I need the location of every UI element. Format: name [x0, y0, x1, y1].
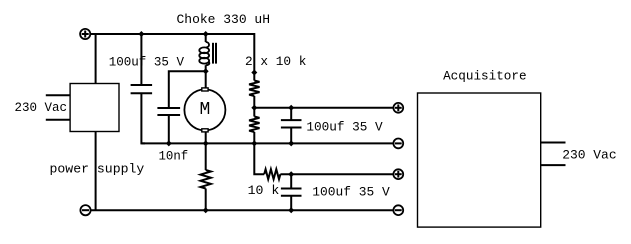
wire 230 Vac input upper — [46, 94, 70, 96]
svg-text:power supply: power supply — [50, 161, 145, 176]
wire acquisitore mains lower — [541, 164, 566, 166]
resistor R1 lead bottom — [253, 96, 255, 117]
svg-text:Acquisitore: Acquisitore — [443, 69, 526, 84]
capacitor C3 100uf 35V lead top — [290, 174, 292, 188]
svg-text:100uf 35 V: 100uf 35 V — [109, 55, 184, 70]
resistor R3 below motor lead top — [205, 143, 207, 170]
capacitor C4 10nf lead bottom — [168, 115, 170, 143]
svg-text:100uf 35 V: 100uf 35 V — [306, 119, 382, 134]
resistor R2 lead bottom — [253, 132, 255, 143]
capacitor C1 100uf 35V plates — [131, 85, 153, 93]
terminal plus output 2 — [393, 169, 403, 179]
terminal minus output 1 — [393, 139, 403, 149]
wire from top rail down to power supply box top — [95, 34, 97, 84]
resistor R2 (lower 10k) zigzag — [249, 117, 259, 133]
capacitor C2 100uf 35V lead top — [290, 108, 292, 120]
motor M bottom brush terminal — [202, 129, 208, 132]
terminal minus (power supply negative output) — [80, 205, 90, 215]
wire row C from R4 to plus terminal 2 — [280, 173, 393, 175]
resistor R3 lead bottom — [205, 189, 207, 211]
choke L1 core bars — [213, 43, 216, 64]
capacitor C1 100uf 35V lead top — [140, 34, 142, 85]
resistor R3 zigzag — [201, 170, 211, 189]
wire row A from divider to plus terminal 1 — [254, 107, 393, 109]
svg-text:230 Vac: 230 Vac — [15, 100, 68, 115]
motor M wire from choke node to motor top brush — [205, 71, 207, 88]
terminal minus output 2 — [393, 205, 403, 215]
motor M top brush terminal — [202, 88, 208, 91]
svg-text:100uf 35 V: 100uf 35 V — [312, 184, 390, 199]
wire from choke bottom node left to 10nf capacitor — [169, 71, 206, 108]
terminal plus (power supply positive output) — [80, 29, 90, 39]
wire from power supply box bottom down to bottom rail — [95, 132, 97, 211]
svg-text:2 x 10 k: 2 x 10 k — [245, 54, 307, 69]
svg-text:10 k: 10 k — [248, 183, 280, 198]
wire acquisitore mains upper — [541, 142, 566, 144]
node junction C2 bottom / row B — [288, 140, 294, 146]
node junction on right column above R1 — [251, 70, 257, 76]
capacitor C1 lead bottom (corner into row B) — [141, 93, 145, 143]
node junction C3 top / row C — [288, 171, 294, 177]
node junction C2 top / row A — [288, 105, 294, 111]
capacitor C3 plates — [281, 189, 302, 196]
node junction top rail / choke top — [203, 31, 209, 37]
svg-text:230 Vac: 230 Vac — [562, 148, 616, 163]
wire motor-bottom rail (row B) — [141, 142, 393, 144]
capacitor C2 plates — [281, 120, 302, 127]
node junction choke bottom / motor top / 10nf branch — [203, 68, 209, 74]
wire top rail from plus terminal to right corner — [90, 34, 254, 81]
capacitor C3 lead bottom — [290, 196, 292, 210]
resistor R1 (upper 10k) zigzag — [249, 81, 259, 97]
motor M body circle — [184, 89, 225, 130]
Acquisitore box — [418, 93, 541, 227]
wire bottom rail — [91, 209, 394, 211]
node junction motor bottom / row B — [203, 140, 209, 146]
node junction top rail / capacitor C1 — [138, 31, 144, 37]
node junction R3 / bottom rail — [203, 207, 209, 213]
node junction 10nf / row B — [166, 140, 172, 146]
resistor R4 10k horizontal zigzag — [264, 169, 280, 179]
wire 230 Vac input lower — [46, 119, 70, 121]
svg-text:Choke 330 uH: Choke 330 uH — [177, 12, 271, 27]
svg-text:10nf: 10nf — [159, 149, 189, 164]
wire from row B node down and right to 10k resistor R4 — [254, 143, 264, 174]
terminal plus output 1 — [393, 103, 403, 113]
svg-text:M: M — [199, 100, 210, 120]
node junction R1/R2 row A — [251, 105, 257, 111]
motor M bottom lead to row B — [205, 132, 207, 144]
capacitor C4 10nf plates — [157, 108, 180, 115]
node junction R2 / row B — [251, 140, 257, 146]
node junction C3 bottom / bottom rail — [288, 207, 294, 213]
choke L1 330uH coil — [199, 34, 209, 71]
capacitor C2 lead bottom — [290, 128, 292, 144]
power supply box — [70, 84, 119, 132]
